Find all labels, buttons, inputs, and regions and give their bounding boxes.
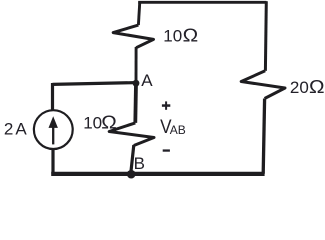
svg-text:20: 20 xyxy=(290,78,309,97)
svg-text:10: 10 xyxy=(163,26,182,45)
svg-text:Ω: Ω xyxy=(101,113,117,134)
svg-text:B: B xyxy=(134,154,145,173)
svg-text:Ω: Ω xyxy=(309,77,325,98)
svg-text:10: 10 xyxy=(83,114,102,133)
svg-text:A: A xyxy=(141,71,153,90)
svg-text:Ω: Ω xyxy=(183,25,199,46)
svg-text:A: A xyxy=(15,120,27,139)
svg-text:2: 2 xyxy=(4,120,13,139)
svg-text:AB: AB xyxy=(170,123,186,137)
